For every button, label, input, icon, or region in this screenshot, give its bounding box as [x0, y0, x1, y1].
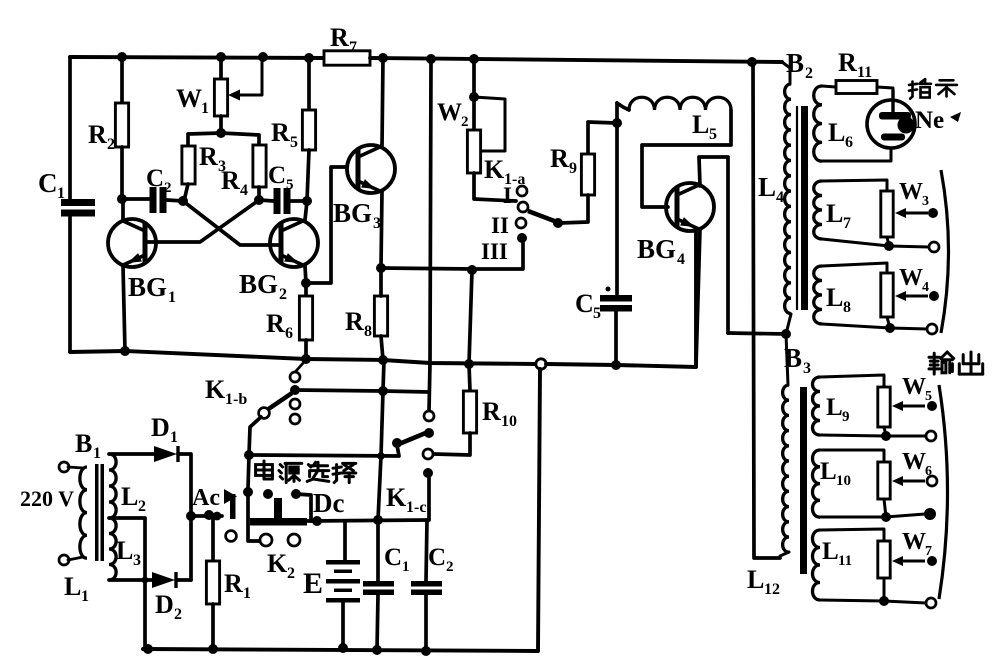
wire L8 top to W4: [822, 263, 887, 273]
wire BG3 emitter: [381, 191, 382, 268]
node C5/R5/BG2 collector: [302, 196, 312, 206]
wire L9 bottom: [820, 435, 886, 436]
wire rectifier join: [178, 454, 191, 580]
svg-text:1: 1: [170, 429, 178, 446]
wire R11 to Ne: [877, 87, 893, 100]
wire L5-C6 vertical: [615, 103, 619, 294]
contact K1-c 4: [423, 468, 433, 478]
svg-text:L: L: [692, 110, 709, 139]
transistor BG3: [347, 145, 395, 193]
pivot K1-a: [553, 218, 563, 228]
inductor L3 secondary: [109, 518, 116, 580]
wire rail down to K1-c top contact: [429, 59, 431, 411]
svg-text:4: 4: [776, 189, 784, 206]
contact II: [516, 218, 526, 228]
wire BG2 collector: [305, 201, 307, 220]
svg-text:220 V: 220 V: [20, 486, 74, 511]
svg-text:R: R: [221, 166, 240, 195]
inductor L5: [617, 103, 629, 110]
svg-text:3: 3: [803, 360, 811, 377]
resistor R2: [120, 57, 124, 103]
wire to AC contact: [191, 514, 222, 518]
svg-text:Ne: Ne: [915, 107, 944, 134]
node AC junction 2: [213, 512, 222, 521]
resistor R1: [211, 516, 215, 561]
svg-text:C: C: [384, 544, 402, 571]
svg-text:L: L: [828, 118, 845, 147]
inductor L6: [814, 86, 822, 161]
wire L9 top to W5: [820, 375, 884, 387]
wire bottom rail: [143, 369, 540, 651]
svg-text:1-b: 1-b: [225, 391, 247, 408]
node pole wire/downline: [378, 386, 388, 396]
svg-text:K: K: [386, 483, 407, 512]
wire to C2: [122, 197, 149, 201]
svg-text:D: D: [155, 590, 174, 619]
inductor L12: [786, 334, 788, 385]
inductor L7: [814, 181, 822, 239]
svg-text:2: 2: [287, 565, 295, 582]
label 指示: [909, 79, 931, 99]
label 电源选择: [256, 461, 273, 479]
wire L10 top to W6: [820, 450, 884, 462]
node W2 wiper tie: [469, 92, 479, 102]
svg-text:R: R: [838, 48, 857, 77]
svg-text:2: 2: [805, 65, 813, 82]
wire pivot down: [249, 417, 261, 455]
node rail-R2: [117, 52, 127, 62]
neon lamp Ne: [867, 100, 915, 148]
node rail-W1 wiper: [258, 52, 268, 62]
diode D1: [109, 452, 154, 456]
terminal W7 wiper: [927, 556, 937, 566]
wiper W5 arrow: [898, 405, 925, 408]
wire L8 bottom: [822, 324, 890, 328]
contact K2 d: [288, 534, 300, 546]
wire mid rail right / BG4 emitter: [546, 231, 696, 367]
svg-text:L: L: [820, 458, 837, 485]
wiper W3 arrow: [901, 212, 928, 215]
wire D2 to join: [176, 578, 191, 582]
svg-text:R: R: [482, 397, 501, 426]
wire L7 top to W3: [822, 180, 887, 191]
contact I: [517, 186, 527, 196]
transistor BG4: [666, 183, 714, 231]
svg-text:R: R: [550, 144, 569, 173]
node R1 rail: [208, 644, 218, 654]
svg-text:1: 1: [201, 100, 209, 117]
core B3: [800, 387, 807, 574]
svg-text:3: 3: [922, 194, 929, 209]
capacitor C1: [61, 199, 95, 206]
svg-text:L: L: [121, 482, 138, 511]
wire top rail left segment: [70, 57, 326, 58]
node AC junction: [204, 510, 214, 520]
inductor L4: [782, 62, 790, 84]
svg-text:K: K: [484, 155, 505, 184]
svg-text:L: L: [826, 283, 843, 312]
svg-text:2: 2: [138, 498, 146, 515]
wire K1-c bottom to DC line: [427, 473, 431, 519]
resistor R6: [304, 283, 308, 296]
wire downline to C1: [378, 360, 384, 581]
wire left edge upper: [68, 57, 72, 199]
node rail-BG3 collector: [378, 53, 388, 63]
wire node to R4: [221, 133, 259, 145]
inductor L1 primary: [80, 467, 87, 558]
resistor R7: [324, 51, 370, 65]
wire left edge lower: [68, 216, 72, 352]
svg-text:6: 6: [845, 134, 853, 151]
svg-text:D: D: [151, 413, 170, 442]
contact K1-b 3: [290, 399, 300, 409]
node R4-C5: [254, 195, 264, 205]
svg-text:2: 2: [174, 606, 182, 623]
contact K1-b pole: [290, 385, 300, 395]
svg-text:L: L: [116, 536, 133, 565]
svg-text:1: 1: [168, 289, 176, 306]
node C2 rail: [421, 646, 431, 656]
svg-text:1: 1: [93, 445, 101, 462]
svg-text:B: B: [75, 429, 92, 458]
wiper W7 arrow: [898, 560, 925, 563]
core B2: [796, 106, 798, 310]
contact K1-b top: [290, 372, 300, 382]
svg-text:BG: BG: [239, 269, 278, 299]
contact K2 a: [263, 489, 273, 499]
inductor L10: [813, 450, 821, 517]
svg-text:4: 4: [677, 251, 685, 268]
node BG2 emitter: [301, 278, 311, 288]
wire pole to K1-c vertical: [295, 390, 429, 392]
node crossing: [142, 577, 149, 584]
node R9 top: [612, 118, 622, 128]
svg-text:2: 2: [279, 286, 287, 303]
node C1 rail: [372, 645, 382, 655]
wire L7 bottom: [822, 239, 889, 246]
svg-text:BG: BG: [637, 234, 676, 264]
potentiometer W6: [878, 462, 890, 499]
svg-text:C: C: [428, 544, 446, 571]
node L7/W3 bottom: [884, 241, 894, 251]
node R2/BG1 collector/C2: [117, 194, 127, 204]
core B1: [95, 464, 99, 561]
transistor BG1: [108, 219, 156, 267]
svg-text:3: 3: [133, 552, 141, 569]
wire BG3 collector: [382, 58, 383, 147]
node W1 bottom: [216, 128, 226, 138]
wire node to R3: [188, 133, 221, 146]
resistor R9: [588, 122, 616, 154]
svg-text:7: 7: [843, 215, 851, 232]
wire top rail right segment: [370, 58, 782, 62]
wire BG4 emitter: [696, 229, 700, 367]
inductor L11: [813, 530, 821, 600]
terminal 220V bottom: [59, 555, 69, 565]
wire K1-b to K1-c pivot: [249, 445, 399, 456]
node crossing K wire: [377, 452, 385, 460]
label 输出: [929, 352, 954, 374]
node DC-C1: [373, 515, 383, 525]
svg-text:R: R: [271, 118, 290, 147]
svg-text:K: K: [205, 375, 226, 404]
node E rail: [338, 643, 348, 653]
wire R8 node to switch III: [381, 243, 523, 269]
wire DC line: [307, 520, 429, 521]
wire L11 top to W7: [820, 529, 884, 541]
svg-text:6: 6: [285, 325, 293, 342]
node L4-L12: [781, 329, 791, 339]
node R6 rail: [301, 354, 311, 364]
output brace lower: [939, 385, 948, 599]
node rail-downline: [426, 54, 436, 64]
svg-text:1: 1: [81, 588, 89, 605]
resistor R5: [307, 58, 311, 110]
wire C6 to rail: [614, 311, 618, 365]
terminal L8 bottom: [927, 324, 937, 334]
contact K1-b 4: [290, 414, 300, 424]
pivot K1-b: [259, 408, 270, 419]
svg-text:Dc: Dc: [313, 488, 344, 518]
svg-text:R: R: [266, 309, 285, 338]
svg-text:1: 1: [402, 559, 410, 575]
svg-text:8: 8: [364, 323, 372, 340]
svg-text:10: 10: [836, 473, 851, 489]
svg-text:1-c: 1-c: [406, 499, 426, 516]
svg-text:11: 11: [857, 64, 872, 81]
node rail left: [143, 644, 153, 654]
wire W1 wiper: [234, 57, 262, 95]
contact Ac lower: [226, 531, 237, 542]
node rail-W1: [216, 52, 226, 62]
terminal L7 bottom: [929, 242, 939, 252]
svg-text:5: 5: [290, 134, 298, 151]
svg-text:9: 9: [569, 160, 577, 177]
output brace upper: [941, 170, 949, 333]
svg-text:R: R: [224, 569, 243, 598]
wire K2 left drop: [248, 492, 260, 541]
svg-text:L: L: [826, 199, 843, 228]
svg-text:Ac: Ac: [192, 485, 220, 511]
contact K1-c top: [424, 411, 434, 421]
svg-text:W: W: [902, 374, 926, 400]
node K2 left: [243, 487, 253, 497]
svg-text:2: 2: [446, 559, 454, 575]
wire center tap to rail: [109, 518, 145, 649]
node rectifier out: [186, 511, 196, 521]
svg-text:W: W: [437, 99, 462, 126]
svg-text:2: 2: [461, 114, 469, 130]
svg-text:E: E: [303, 567, 323, 600]
svg-text:12: 12: [764, 581, 780, 598]
svg-text:11: 11: [838, 553, 852, 569]
wire W2 wiper loop: [474, 97, 505, 151]
inductor L2 secondary: [109, 454, 116, 518]
potentiometer W2: [472, 59, 476, 130]
wire to terminal: [889, 246, 929, 247]
node C6 rail: [611, 360, 621, 370]
resistor R10: [469, 270, 472, 391]
capacitor C2: [150, 187, 157, 213]
svg-text:W: W: [902, 449, 926, 475]
junction ring: [536, 359, 546, 369]
svg-text:5: 5: [286, 177, 294, 193]
svg-text:III: III: [481, 239, 508, 264]
inductor L9: [813, 377, 821, 435]
transistor BG2: [270, 219, 318, 267]
svg-text:C: C: [575, 289, 594, 318]
resistor R8: [374, 296, 387, 336]
wire L11 bottom: [820, 600, 884, 601]
svg-text:8: 8: [843, 299, 851, 316]
contact III: [517, 233, 527, 243]
wire mid rail: [70, 351, 536, 364]
capacitor C6: [600, 295, 632, 302]
svg-text:L: L: [747, 565, 764, 594]
contact K2 c: [260, 534, 272, 546]
resistor R3: [182, 146, 195, 184]
wire BG2 emitter to BG3 base: [306, 167, 347, 283]
wire C2 to node: [167, 200, 183, 201]
inductor L8: [814, 266, 822, 324]
svg-text:W: W: [902, 529, 926, 555]
wire K2 to DC line: [296, 494, 311, 521]
node DC-E: [312, 516, 322, 526]
node K1-b/K2 branch: [244, 450, 254, 460]
svg-text:K: K: [267, 549, 288, 578]
svg-text:BG: BG: [333, 198, 372, 228]
svg-text:C: C: [38, 168, 58, 198]
svg-text:R: R: [345, 307, 364, 336]
wire cross-couple to BG1 base: [148, 200, 259, 242]
capacitor C5: [274, 188, 281, 214]
wiper W4 arrow: [901, 295, 928, 298]
svg-text:10: 10: [501, 413, 517, 430]
contact K1-c 3: [423, 449, 433, 459]
wire collector to B2 bottom: [728, 333, 786, 334]
wire B2 left line down: [753, 62, 780, 558]
svg-text:W: W: [899, 179, 923, 205]
potentiometer W5: [878, 387, 890, 427]
svg-text:9: 9: [842, 409, 850, 425]
terminal L9 bottom: [926, 431, 936, 441]
wire W2 bottom to contact I: [474, 173, 516, 201]
pivot K1-c: [392, 438, 402, 448]
potentiometer W7: [878, 541, 890, 578]
resistor R11: [836, 81, 877, 94]
wire BG1 collector: [121, 199, 125, 221]
potentiometer W3: [881, 191, 893, 237]
capacitor C2 (filter): [426, 520, 427, 581]
svg-text:1: 1: [57, 185, 65, 202]
svg-text:4: 4: [240, 182, 248, 199]
svg-text:R: R: [88, 120, 107, 149]
diode D2: [109, 578, 152, 582]
wire node to C5: [259, 200, 274, 201]
terminal 220V top: [59, 462, 69, 472]
svg-text:W: W: [176, 84, 202, 113]
node L10/W6 bottom: [881, 512, 891, 522]
node BG1 emitter rail: [120, 346, 130, 356]
resistor R4: [253, 145, 266, 187]
terminal W4 wiper: [929, 291, 939, 301]
svg-text:5: 5: [709, 126, 717, 143]
wire to battery E: [343, 521, 347, 560]
svg-text:4: 4: [922, 280, 929, 295]
wire L5 to BG4 base: [642, 110, 731, 207]
wire BG4 collector: [699, 157, 728, 333]
svg-text:W: W: [899, 265, 923, 291]
node L8/W4 bottom: [885, 323, 895, 333]
wire branch to K2: [248, 455, 249, 489]
terminal L11 bottom: [926, 598, 936, 608]
wire BG2 emitter: [305, 266, 306, 283]
svg-text:R: R: [330, 23, 349, 52]
svg-text:R: R: [199, 142, 218, 171]
wire Ne bottom to L6: [822, 148, 891, 161]
svg-text:I: I: [503, 183, 512, 208]
svg-text:C: C: [268, 162, 286, 189]
terminal L10 bottom: [924, 508, 936, 520]
node III-wire/R10 riser: [467, 265, 477, 275]
node BG3 emitter/R8: [376, 263, 386, 273]
svg-text:7: 7: [349, 39, 357, 56]
node R8 rail: [378, 355, 388, 365]
svg-text:II: II: [491, 213, 509, 238]
wiper W6 arrow: [898, 480, 925, 483]
svg-text:C: C: [146, 165, 164, 192]
wire L10 bottom: [820, 516, 886, 519]
node R10 rail: [464, 359, 474, 369]
node L11/W7 bottom: [879, 596, 889, 606]
svg-text:L: L: [822, 538, 839, 565]
svg-text:2: 2: [107, 136, 115, 153]
wire C5 to node: [290, 199, 307, 203]
node rail-B2 line: [747, 57, 757, 67]
contact pole K1-a: [518, 202, 528, 212]
potentiometer W4: [881, 273, 893, 317]
wire contact to rail: [296, 361, 305, 371]
terminal W3 wiper: [928, 208, 938, 218]
svg-text:BG: BG: [128, 272, 167, 302]
contact K2 b: [291, 489, 301, 499]
contact K1-c 2: [424, 428, 434, 438]
wire BG1 emitter: [123, 266, 125, 351]
node C2-R3: [178, 196, 188, 206]
node rail-W2: [469, 54, 479, 64]
node L9/W5 bottom: [881, 431, 891, 441]
svg-text:L: L: [64, 572, 81, 601]
wire cross-couple to BG2 base: [183, 201, 278, 245]
potentiometer W1: [219, 57, 223, 79]
svg-text:5: 5: [593, 305, 601, 322]
terminal W6 wiper: [927, 476, 937, 486]
svg-text:2: 2: [164, 180, 172, 196]
node rail-R5: [304, 53, 314, 63]
svg-text:L: L: [758, 172, 776, 202]
terminal W5 wiper: [927, 401, 937, 411]
wire to terminal: [890, 328, 928, 329]
svg-text:1: 1: [243, 585, 251, 602]
svg-text:L: L: [826, 394, 843, 421]
